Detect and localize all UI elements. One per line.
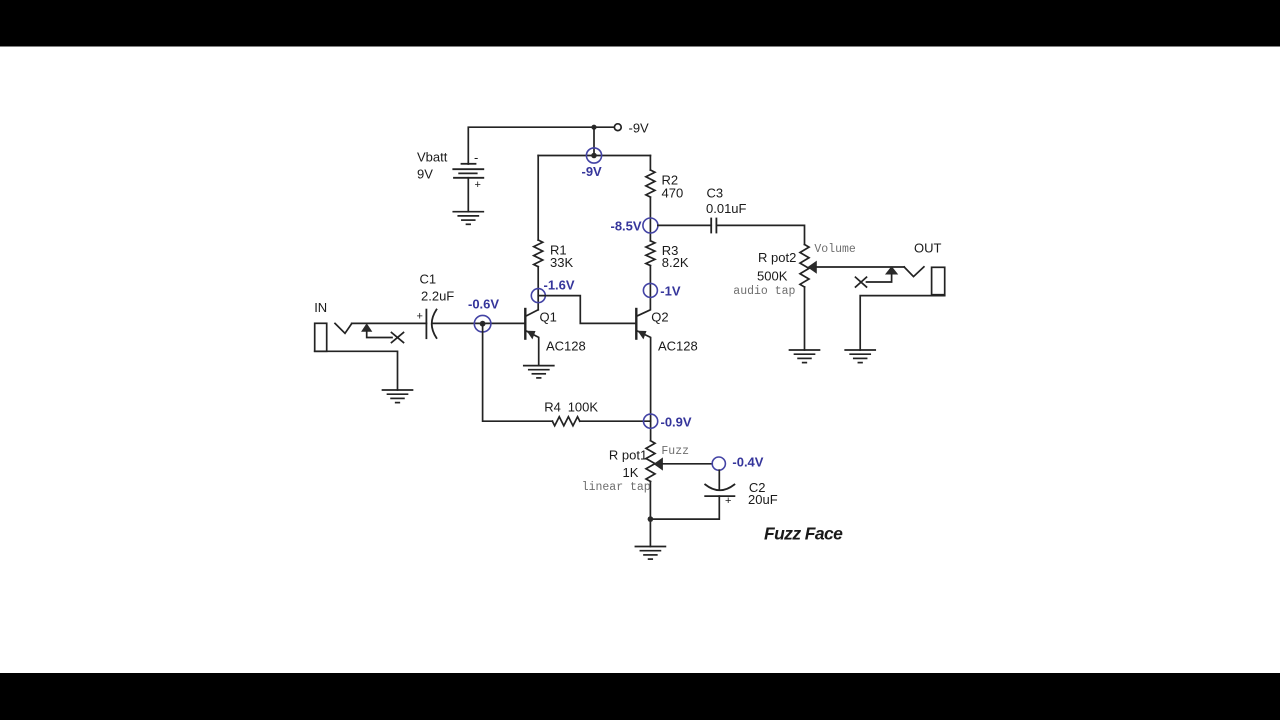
svg-text:-0.9V: -0.9V: [661, 415, 692, 430]
R pot1 wiper arrow: [654, 458, 662, 469]
svg-text:Volume: Volume: [814, 243, 856, 256]
svg-text:Vbatt: Vbatt: [417, 150, 448, 165]
wire Q1 collector: [526, 310, 539, 316]
ground (Q1 emitter): [524, 366, 554, 378]
-9V terminal open circle: [614, 124, 621, 131]
svg-text:R4: R4: [544, 400, 561, 415]
label 8.2K: [662, 255, 689, 270]
label -1.6V: [544, 278, 575, 293]
svg-text:+: +: [725, 495, 731, 507]
svg-text:500K: 500K: [757, 269, 788, 284]
wire Q1 collector coupling to Q2 base: [538, 296, 636, 324]
label R pot2: [758, 250, 796, 265]
wire -9V rail horizontal: [538, 155, 650, 157]
svg-text:C1: C1: [420, 272, 437, 287]
svg-text:1K: 1K: [623, 465, 639, 480]
voltage probe -0.9V: [644, 414, 658, 428]
label Q2: [651, 310, 668, 325]
wire R pot1 bottom to ground: [649, 482, 651, 547]
wire -8.5V probe to C3: [658, 224, 711, 226]
label -9V probe: [582, 164, 603, 179]
svg-text:AC128: AC128: [658, 339, 698, 354]
svg-text:-: -: [474, 150, 478, 165]
svg-text:0.01uF: 0.01uF: [706, 201, 747, 216]
wire R1 to -1.6V probe: [537, 267, 539, 310]
capacitor C1 curved plate: [432, 310, 437, 339]
transistor Q1 emitter: [526, 331, 539, 366]
voltage probe -0.6V: [474, 315, 491, 332]
ground (R pot2): [790, 350, 820, 363]
svg-text:IN: IN: [314, 300, 327, 315]
label -0.4V: [732, 455, 763, 470]
voltage probe -0.4V: [712, 457, 725, 470]
wire Q2 collector: [637, 297, 651, 316]
ground (IN jack): [383, 390, 413, 403]
svg-text:-8.5V: -8.5V: [611, 219, 642, 234]
svg-text:+: +: [417, 311, 423, 323]
wire battery top to -9V rail node: [468, 127, 594, 164]
label audio tap: [733, 285, 795, 298]
label Vbatt: [417, 150, 448, 165]
svg-text:R pot2: R pot2: [758, 250, 796, 265]
capacitor C2 20uF curved plate: [705, 485, 734, 491]
svg-text:R pot1: R pot1: [609, 448, 647, 463]
svg-text:linear tap: linear tap: [582, 481, 651, 494]
ground (battery): [453, 212, 483, 225]
svg-text:Fuzz: Fuzz: [661, 445, 689, 458]
wire C3 to R pot2: [716, 225, 804, 244]
label R1: [550, 243, 567, 258]
label AC128 (Q2): [658, 339, 698, 354]
label 9V: [417, 167, 433, 182]
svg-text:-9V: -9V: [582, 164, 603, 179]
resistor R4 100K: [552, 417, 579, 426]
svg-text:470: 470: [662, 186, 684, 201]
wire R4 to -0.9V node: [580, 420, 651, 422]
wire wiper to OUT jack tip: [816, 266, 904, 268]
capacitor C1 2.2uF left plate: [425, 310, 427, 339]
wire -9V rail corner down to R2: [649, 156, 651, 171]
label 33K: [550, 255, 573, 270]
svg-text:-0.4V: -0.4V: [732, 455, 763, 470]
battery plus sign: [475, 179, 481, 191]
IN jack tip contact: [335, 323, 352, 333]
voltage probe -9V: [586, 148, 601, 163]
wire -0.6V node down to R4 feedback: [483, 324, 553, 422]
label -0.6V: [468, 297, 499, 312]
wire R2 to -8.5V probe: [649, 197, 651, 241]
wire node down to -9V probe: [593, 127, 595, 155]
potentiometer R pot2 500K: [800, 245, 809, 287]
label 470: [662, 186, 684, 201]
svg-text:-1.6V: -1.6V: [544, 278, 575, 293]
wire IN tip to C1: [352, 322, 427, 324]
label IN: [314, 300, 327, 315]
wire rail down to R1: [537, 156, 539, 241]
label AC128 (Q1): [546, 339, 586, 354]
ground (OUT jack): [845, 350, 875, 363]
bottom letterbox bar: [0, 673, 1280, 720]
wire C2 to bottom junction: [650, 496, 719, 519]
label R4: [544, 400, 561, 415]
label R3: [662, 243, 679, 258]
label C1: [420, 272, 437, 287]
IN jack switch arrow: [362, 324, 392, 337]
OUT jack switch arrow: [867, 267, 898, 282]
svg-text:+: +: [475, 179, 481, 191]
voltage probe -8.5V: [643, 218, 658, 233]
resistor R1 33K: [534, 240, 543, 267]
svg-text:-9V: -9V: [629, 121, 650, 136]
IN jack switch break X: [392, 333, 404, 343]
wire R3 to -1V probe and Q2: [649, 266, 651, 298]
label -1V: [660, 284, 681, 299]
capacitor C3 0.01uF: [711, 219, 716, 233]
wire C1 to Q1 base: [432, 322, 525, 324]
OUT jack switch break X: [856, 277, 867, 287]
label linear tap: [582, 481, 651, 494]
svg-text:8.2K: 8.2K: [662, 255, 689, 270]
wire battery to ground: [467, 178, 469, 212]
svg-text:-1V: -1V: [660, 284, 681, 299]
label Q1: [540, 310, 557, 325]
label R2: [662, 173, 679, 188]
C2 plus sign: [725, 495, 731, 507]
svg-text:20uF: 20uF: [748, 492, 778, 507]
title Fuzz Face: [764, 524, 843, 544]
resistor R3 8.2K: [646, 241, 655, 266]
label -9V terminal: [629, 121, 650, 136]
OUT jack tip contact: [904, 267, 924, 277]
R pot2 wiper arrow: [808, 262, 816, 273]
battery minus sign: [474, 150, 478, 165]
node dot at top rail: [591, 125, 596, 130]
battery Vbatt: [453, 164, 483, 178]
label 100K: [568, 400, 599, 415]
label Volume: [814, 243, 856, 256]
label OUT: [914, 241, 942, 256]
svg-text:Fuzz Face: Fuzz Face: [764, 524, 843, 544]
capacitor C2 bottom plate: [705, 495, 734, 497]
ground (R pot1 / C2): [635, 547, 665, 560]
OUT jack sleeve wire to ground: [860, 296, 945, 350]
wire -0.4V node to C2: [718, 470, 720, 489]
label Fuzz: [661, 445, 689, 458]
label 2.2uF: [421, 289, 454, 304]
label C3: [707, 186, 724, 201]
transistor Q2 emitter: [637, 331, 651, 441]
transistor Q1 base bar: [524, 309, 526, 339]
transistor Q2 base bar: [635, 309, 637, 339]
wire wiper to -0.4V node: [662, 463, 712, 465]
svg-text:100K: 100K: [568, 400, 599, 415]
C1 plus sign: [417, 311, 423, 323]
svg-text:AC128: AC128: [546, 339, 586, 354]
label 1K: [623, 465, 639, 480]
voltage probe -1.6V: [531, 289, 545, 303]
svg-text:2.2uF: 2.2uF: [421, 289, 454, 304]
svg-text:Q1: Q1: [540, 310, 557, 325]
junction dot bottom: [648, 516, 654, 522]
label 0.01uF: [706, 201, 747, 216]
OUT jack body: [932, 267, 945, 294]
potentiometer R pot1 1K: [646, 441, 655, 482]
label R pot1: [609, 448, 647, 463]
resistor R2 470: [646, 170, 655, 197]
svg-text:-0.6V: -0.6V: [468, 297, 499, 312]
svg-text:Q2: Q2: [651, 310, 668, 325]
wire node to -9V terminal: [594, 126, 614, 128]
label -0.9V: [661, 415, 692, 430]
top letterbox bar: [0, 0, 1280, 47]
svg-text:audio tap: audio tap: [733, 285, 795, 298]
svg-text:33K: 33K: [550, 255, 573, 270]
wire R pot2 bottom to ground: [804, 287, 806, 350]
voltage probe -1V: [643, 283, 657, 297]
node dot in -0.6V probe: [480, 321, 486, 327]
svg-text:C3: C3: [707, 186, 724, 201]
svg-text:9V: 9V: [417, 167, 433, 182]
node dot in -9V probe: [591, 153, 597, 159]
label -8.5V: [611, 219, 642, 234]
label 500K: [757, 269, 788, 284]
IN jack body: [315, 323, 327, 351]
label C2: [749, 480, 766, 495]
IN jack sleeve wire to ground: [315, 351, 398, 390]
label 20uF: [748, 492, 778, 507]
svg-text:OUT: OUT: [914, 241, 942, 256]
